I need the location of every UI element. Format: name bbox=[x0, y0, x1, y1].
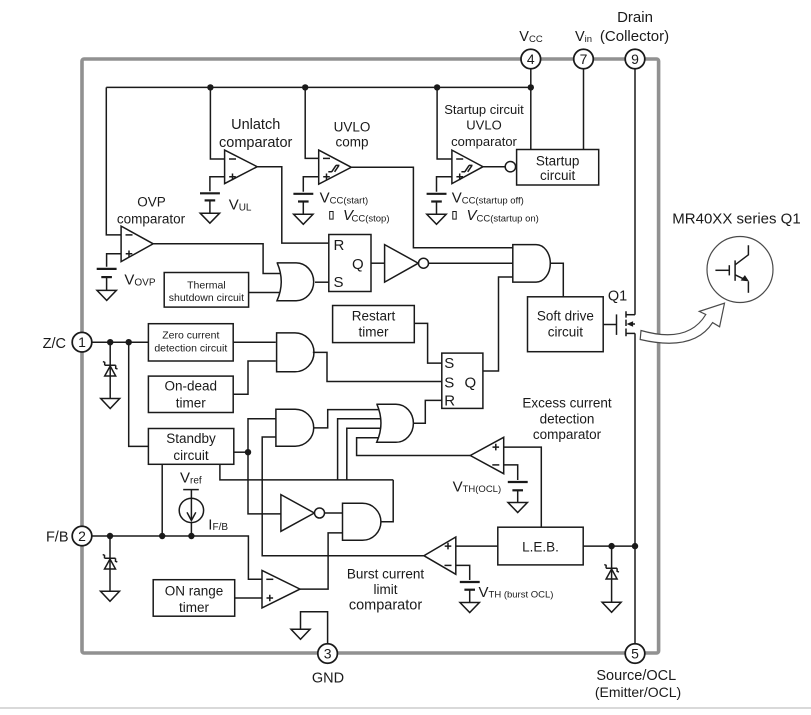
wire: burst comparator plus input to L.E.B. left bbox=[456, 545, 498, 547]
junction dot on bus at UVLO tap bbox=[302, 84, 308, 90]
clamp diode D3 on source sense bbox=[604, 546, 619, 602]
svg-text:CC(stop): CC(stop) bbox=[352, 213, 390, 224]
minus mark excess comparator bbox=[492, 464, 499, 466]
wire: Q1 source down to pin 5 bbox=[634, 333, 636, 644]
svg-text:comparator: comparator bbox=[451, 134, 517, 149]
svg-text:GND: GND bbox=[312, 671, 344, 687]
svg-text:Thermal: Thermal bbox=[187, 279, 226, 291]
svg-text:circuit: circuit bbox=[540, 168, 576, 183]
wire: pin 4 to startup circuit box bbox=[530, 68, 532, 149]
pin 7 bbox=[574, 49, 594, 69]
MR40XX series Q1 detail circle bbox=[707, 237, 773, 303]
latch U-RS2 (S S Q R) bbox=[442, 353, 483, 408]
svg-text:S: S bbox=[334, 274, 344, 291]
svg-text:Zero current: Zero current bbox=[162, 330, 219, 342]
wire: L.E.B. output to source line bbox=[583, 545, 635, 547]
pin 5 bbox=[625, 644, 645, 664]
restart timer box bbox=[333, 306, 415, 343]
svg-text:timer: timer bbox=[359, 325, 390, 340]
wire: latch2 Q to AND4 bottom input bbox=[483, 277, 513, 371]
svg-text:Excess current: Excess current bbox=[522, 396, 612, 411]
wire: burst comparator output to AND2 bottom input bbox=[262, 437, 424, 556]
wire: UVLO comp plus input to VCC(start) bbox=[303, 177, 318, 192]
svg-text:3: 3 bbox=[324, 645, 332, 661]
wire: pin 9 drain line to Q1 bbox=[634, 68, 636, 314]
plus mark ON range comparator bbox=[267, 595, 274, 602]
transistor symbol inside circle (IGBT) bbox=[715, 245, 749, 293]
svg-text:Source/OCL: Source/OCL bbox=[596, 668, 676, 684]
pin 4 bbox=[521, 49, 541, 69]
reference battery VOVP bbox=[97, 269, 117, 291]
svg-text:shutdown circuit: shutdown circuit bbox=[169, 292, 244, 304]
thermal shutdown circuit box bbox=[164, 273, 248, 308]
svg-text:L.E.B.: L.E.B. bbox=[522, 540, 559, 555]
wire: zero current box to AND1 top input bbox=[233, 341, 276, 343]
svg-text:(Emitter/OCL): (Emitter/OCL) bbox=[595, 684, 681, 700]
minus mark OVP bbox=[126, 234, 133, 236]
transistor Q1 (power MOSFET) bbox=[603, 311, 635, 336]
svg-text:comparator: comparator bbox=[117, 211, 186, 226]
ground below VTH(burst OCL) bbox=[460, 603, 479, 613]
svg-text:comparator: comparator bbox=[533, 427, 602, 442]
hysteresis tick glyph bbox=[330, 212, 333, 220]
junction dot at L.E.B. diode bbox=[608, 543, 614, 549]
svg-text:timer: timer bbox=[179, 600, 210, 615]
junction dot at source line bbox=[632, 543, 638, 549]
ON range timer box bbox=[153, 580, 235, 617]
reference battery VTH(burst OCL) bbox=[460, 582, 480, 602]
op-amp startup circuit UVLO comparator bbox=[452, 150, 483, 184]
wire: UVLO output to AND4 top input bbox=[351, 167, 513, 247]
soft drive circuit box bbox=[528, 297, 604, 352]
wire: top supply bus bbox=[106, 86, 531, 88]
wire: rail up to OR2 input3 bbox=[347, 428, 385, 480]
svg-text:9: 9 bbox=[631, 51, 639, 67]
standby circuit box bbox=[148, 429, 233, 465]
wire: OVP comparator plus input to VOVP reference bbox=[107, 254, 122, 267]
svg-text:circuit: circuit bbox=[548, 325, 584, 340]
clamp diode D2 on F/B pin bbox=[103, 536, 118, 591]
svg-text:circuit: circuit bbox=[173, 448, 209, 463]
inverter NOT1 bbox=[385, 245, 419, 283]
svg-text:5: 5 bbox=[631, 645, 639, 661]
junction dot on F/B wire at diode bbox=[107, 533, 113, 539]
wire: thermal shutdown output to OR1 bottom input bbox=[249, 292, 283, 294]
wire: restart timer output to latch2 top S input bbox=[414, 323, 442, 363]
minus mark ON range comparator bbox=[266, 578, 273, 580]
wire: pin2 F/B horizontal net bbox=[91, 536, 262, 579]
wire: ON range timer output to comparator plus input bbox=[235, 597, 262, 599]
junction dot on Z/C wire at standby tap bbox=[126, 339, 132, 345]
op-amp OVP comparator bbox=[121, 226, 153, 262]
svg-text:detection circuit: detection circuit bbox=[154, 342, 227, 354]
AND gate AND1 (zero current) bbox=[277, 333, 314, 372]
reference battery VUL bbox=[200, 193, 220, 213]
svg-text:comparator: comparator bbox=[349, 598, 423, 614]
reference battery VCC(start) bbox=[293, 194, 313, 214]
wire: unlatch output to latch1 R input bbox=[257, 167, 329, 243]
minus mark UVLO bbox=[323, 157, 330, 159]
svg-text:UVLO: UVLO bbox=[466, 118, 501, 133]
ground below VOVP bbox=[97, 290, 116, 300]
bubble NOT1 bbox=[419, 258, 429, 268]
svg-text:Drain: Drain bbox=[617, 9, 653, 26]
plus mark excess comparator bbox=[493, 444, 500, 451]
svg-text:2: 2 bbox=[78, 528, 86, 544]
wire: bus to OVP comparator minus input bbox=[106, 87, 121, 235]
wire: standby output junction bbox=[234, 451, 248, 453]
wire: on-dead timer to AND1 bottom input bbox=[233, 361, 276, 394]
wire: bus to UVLO comp minus input bbox=[305, 87, 319, 158]
svg-text:On-dead: On-dead bbox=[165, 379, 218, 394]
svg-text:Standby: Standby bbox=[166, 431, 216, 446]
ground below D3 bbox=[602, 602, 621, 612]
junction dot on F/B wire at standby tap bbox=[159, 533, 165, 539]
wire: OR2 output to latch2 R input bbox=[413, 400, 441, 423]
junction dot on Z/C wire at diode bbox=[107, 339, 113, 345]
svg-text:OVP: OVP bbox=[137, 195, 166, 210]
wire: AND2 output to OR2 input1 bbox=[314, 410, 385, 428]
wire: startup comparator output to bubble bbox=[483, 166, 505, 168]
inverter NOT2 bbox=[281, 495, 314, 532]
L.E.B. box bbox=[498, 527, 583, 565]
junction dot at standby output bbox=[245, 449, 251, 455]
svg-text:(Collector): (Collector) bbox=[600, 28, 669, 45]
wire: AND1 output to latch2 S input bbox=[313, 352, 442, 381]
svg-text:7: 7 bbox=[580, 51, 588, 67]
op-amp Unlatch comparator bbox=[225, 150, 258, 184]
ground below VCC(start) bbox=[294, 214, 313, 224]
wire: standby bottom to F/B net bbox=[161, 464, 163, 536]
svg-text:CC(startup on): CC(startup on) bbox=[477, 213, 539, 224]
startup circuit box bbox=[517, 150, 599, 186]
wire: bus to Unlatch comparator minus input bbox=[210, 87, 224, 159]
ground below VCC(startup off) bbox=[427, 214, 446, 224]
svg-text:Q1: Q1 bbox=[608, 289, 627, 305]
AND gate AND3 (burst) bbox=[343, 503, 381, 540]
svg-text:timer: timer bbox=[176, 395, 207, 410]
pin 2 bbox=[72, 526, 92, 546]
svg-text:Z/C: Z/C bbox=[43, 336, 66, 352]
current source IF/B bbox=[179, 490, 203, 536]
op-amp burst current limit comparator bbox=[424, 537, 456, 574]
svg-text:R: R bbox=[334, 237, 345, 254]
wire: AND3 output up to rail bbox=[381, 480, 393, 522]
zero current detection circuit box bbox=[148, 324, 233, 361]
AND gate AND4 (gate drive) bbox=[513, 245, 551, 283]
pin 3 bbox=[318, 644, 338, 664]
minus mark Unlatch bbox=[229, 158, 236, 160]
wire: excess comparator minus input to VTH(OCL) bbox=[504, 465, 518, 480]
svg-text:limit: limit bbox=[374, 582, 398, 597]
svg-text:S: S bbox=[444, 355, 454, 372]
svg-text:UVLO: UVLO bbox=[334, 119, 371, 134]
wire: standby output up to AND2 top input bbox=[248, 419, 276, 453]
wire: Z/C tap down to standby circuit input bbox=[129, 342, 149, 446]
svg-text:Startup: Startup bbox=[536, 154, 580, 169]
ground at pin3 bbox=[291, 629, 310, 639]
wire: pin 7 to startup circuit box bbox=[583, 68, 585, 149]
wire: rail up to OR2 input2 bbox=[338, 419, 385, 480]
wire: NOT2 output to AND3 top input bbox=[325, 512, 343, 514]
svg-text:Q: Q bbox=[465, 374, 477, 391]
wire: OVP output to OR1 top input bbox=[153, 244, 283, 274]
inversion bubble at startup circuit input bbox=[505, 162, 515, 172]
bubble NOT2 bbox=[315, 508, 325, 518]
svg-text:ON range: ON range bbox=[165, 583, 224, 598]
wire: pin3 internal ground bbox=[301, 612, 328, 644]
hysteresis glyph UVLO bbox=[328, 165, 339, 171]
svg-text:comparator: comparator bbox=[219, 135, 293, 151]
op-amp ON range comparator bbox=[262, 570, 300, 608]
wire: AND4 output to soft drive circuit bbox=[550, 263, 563, 297]
wire: excess comparator output to OR2 input4 bbox=[357, 438, 471, 456]
ground below D2 bbox=[101, 591, 120, 601]
Vref supply bar bbox=[183, 489, 199, 491]
plus mark OVP bbox=[126, 251, 133, 258]
plus mark Unlatch bbox=[229, 174, 236, 181]
op-amp UVLO comp bbox=[319, 150, 352, 184]
pin 1 bbox=[72, 332, 92, 352]
ground below VUL bbox=[200, 213, 219, 223]
svg-text:Q: Q bbox=[352, 256, 364, 273]
junction dot on bus at startup comparator tap bbox=[434, 84, 440, 90]
wire: excess comparator plus input to L.E.B. top bbox=[504, 447, 542, 527]
svg-text:detection: detection bbox=[540, 411, 595, 426]
svg-text:Unlatch: Unlatch bbox=[231, 117, 280, 133]
curved arrow to MR40XX bubble bbox=[640, 303, 724, 343]
reference battery VTH(OCL) bbox=[508, 482, 528, 503]
latch U-RS1 (R S Q) bbox=[329, 235, 371, 292]
ground below D1 bbox=[101, 399, 120, 409]
wire: standby bottom rail bbox=[220, 464, 393, 480]
wire: burst comparator minus input to VTH(burst OCL) bbox=[456, 565, 470, 580]
wire: latch1 Q to inverter bbox=[371, 262, 385, 264]
wire: OR1 output to latch1 S input bbox=[315, 281, 329, 283]
reference battery VCC(startup off) bbox=[427, 194, 447, 214]
wire: pin1 Z/C to zero current detection box bbox=[91, 341, 148, 343]
svg-text:Restart: Restart bbox=[352, 309, 396, 324]
wire: NOT1 output to AND4 middle input bbox=[429, 262, 513, 264]
svg-text:Startup circuit: Startup circuit bbox=[444, 102, 524, 117]
svg-text:Burst current: Burst current bbox=[347, 567, 425, 582]
minus mark startup comparator bbox=[456, 158, 463, 160]
plus mark burst comparator bbox=[445, 543, 452, 550]
AND gate AND2 (standby) bbox=[276, 409, 314, 446]
OR gate OR1 (thermal/OVP) bbox=[277, 263, 314, 301]
IC package frame bbox=[82, 59, 659, 653]
plus mark UVLO bbox=[323, 174, 330, 181]
on-dead timer box bbox=[148, 376, 233, 412]
wire: ON range comparator output to AND3 bottom input bbox=[300, 533, 343, 589]
svg-text:4: 4 bbox=[527, 51, 535, 67]
page rule line at bottom bbox=[0, 707, 811, 709]
minus mark burst comparator bbox=[445, 564, 452, 566]
svg-text:1: 1 bbox=[78, 334, 86, 350]
svg-text:F/B: F/B bbox=[46, 530, 69, 546]
junction dot on F/B wire at current source bbox=[188, 533, 194, 539]
pin 9 bbox=[625, 49, 645, 69]
svg-text:MR40XX series Q1: MR40XX series Q1 bbox=[672, 210, 800, 227]
wire: bus to startup UVLO comparator minus input bbox=[437, 87, 452, 159]
svg-text:S: S bbox=[444, 374, 454, 391]
wire: standby output down to NOT2 input bbox=[248, 452, 281, 514]
svg-text:comp: comp bbox=[335, 135, 368, 150]
OR gate OR2 (reset collect) bbox=[376, 404, 413, 442]
hysteresis glyph startup comparator bbox=[461, 165, 472, 171]
plus mark startup comparator bbox=[456, 174, 463, 181]
svg-text:R: R bbox=[444, 393, 455, 410]
op-amp excess current detection comparator bbox=[470, 437, 503, 473]
wire: Unlatch comparator plus input to VUL bbox=[210, 177, 225, 191]
junction dot on bus at pin4 line bbox=[528, 84, 534, 90]
svg-text:Soft drive: Soft drive bbox=[537, 308, 594, 323]
junction dot on bus at unlatch tap bbox=[207, 84, 213, 90]
wire: startup UVLO comparator plus input to VCC(startup off) bbox=[437, 177, 452, 192]
ground below VTH(OCL) bbox=[508, 503, 527, 513]
hysteresis tick glyph 2 bbox=[453, 212, 456, 220]
clamp diode D1 on Z/C pin bbox=[103, 342, 118, 398]
